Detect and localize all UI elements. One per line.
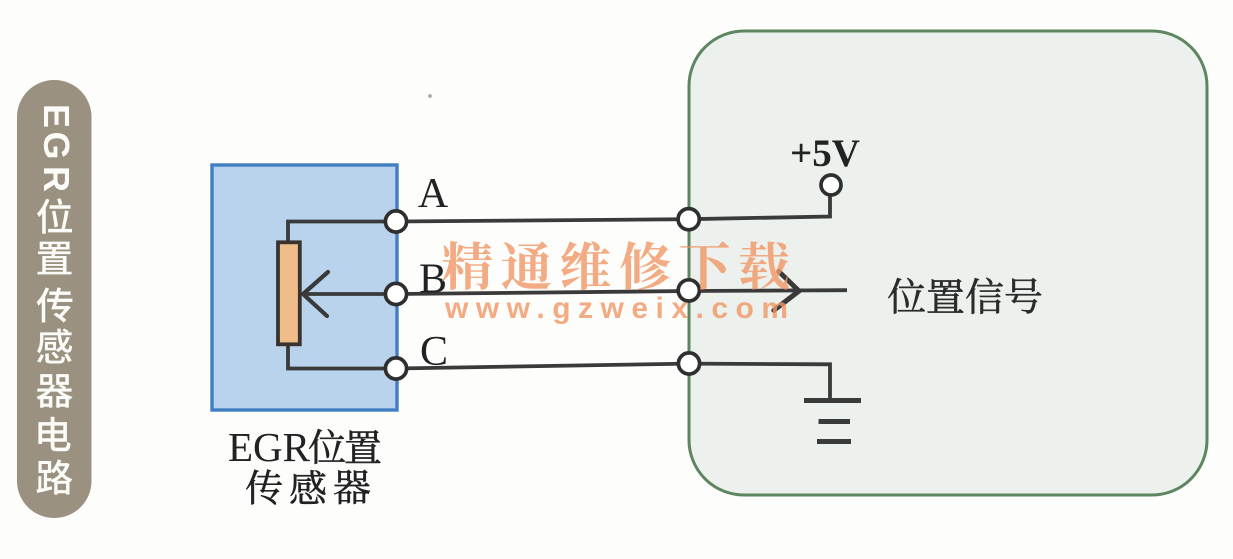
wire C: pot bottom to ground bbox=[288, 343, 830, 400]
svg-text:+5V: +5V bbox=[790, 132, 860, 175]
svg-text:R: R bbox=[36, 166, 77, 192]
watermark www.gzweix.com bbox=[444, 292, 788, 325]
label A bbox=[418, 171, 449, 217]
ECU box bbox=[689, 31, 1207, 495]
svg-text:E: E bbox=[36, 104, 77, 128]
label +5V bbox=[790, 132, 860, 175]
signal arrow head bbox=[774, 272, 799, 311]
node A (ECU pin) bbox=[678, 209, 699, 230]
terminal C (sensor) bbox=[385, 358, 406, 379]
svg-text:A: A bbox=[418, 171, 449, 217]
terminal B (sensor) bbox=[385, 283, 406, 304]
svg-text:G: G bbox=[36, 131, 77, 159]
+5V supply terminal bbox=[821, 175, 841, 195]
potentiometer body bbox=[278, 242, 300, 344]
wire A: pot top to +5V bbox=[288, 195, 830, 243]
svg-text:C: C bbox=[420, 329, 448, 375]
wiper arrow head bbox=[303, 272, 328, 316]
svg-text:www.gzweix.com: www.gzweix.com bbox=[444, 292, 788, 325]
wire B: wiper to signal output bbox=[303, 290, 847, 294]
label 位置信号 (position signal) bbox=[888, 278, 1041, 314]
terminal A (sensor) bbox=[385, 211, 406, 232]
sensor box (EGR position sensor) bbox=[212, 165, 397, 410]
label EGR位置 (line 1) bbox=[228, 424, 380, 470]
label 传感器 (line 2) bbox=[246, 470, 370, 505]
node B (ECU pin) bbox=[678, 280, 699, 301]
sidebar title bar (EGR位置传感器电路) bbox=[17, 80, 92, 518]
label C bbox=[420, 329, 448, 375]
scan speck bbox=[428, 94, 432, 98]
ground symbol bbox=[804, 401, 861, 442]
watermark 精通维修下载 bbox=[442, 241, 789, 290]
svg-text:EGR: EGR bbox=[228, 424, 311, 470]
label B bbox=[419, 257, 447, 303]
node C (ECU pin) bbox=[678, 353, 699, 374]
svg-text:B: B bbox=[419, 257, 447, 303]
